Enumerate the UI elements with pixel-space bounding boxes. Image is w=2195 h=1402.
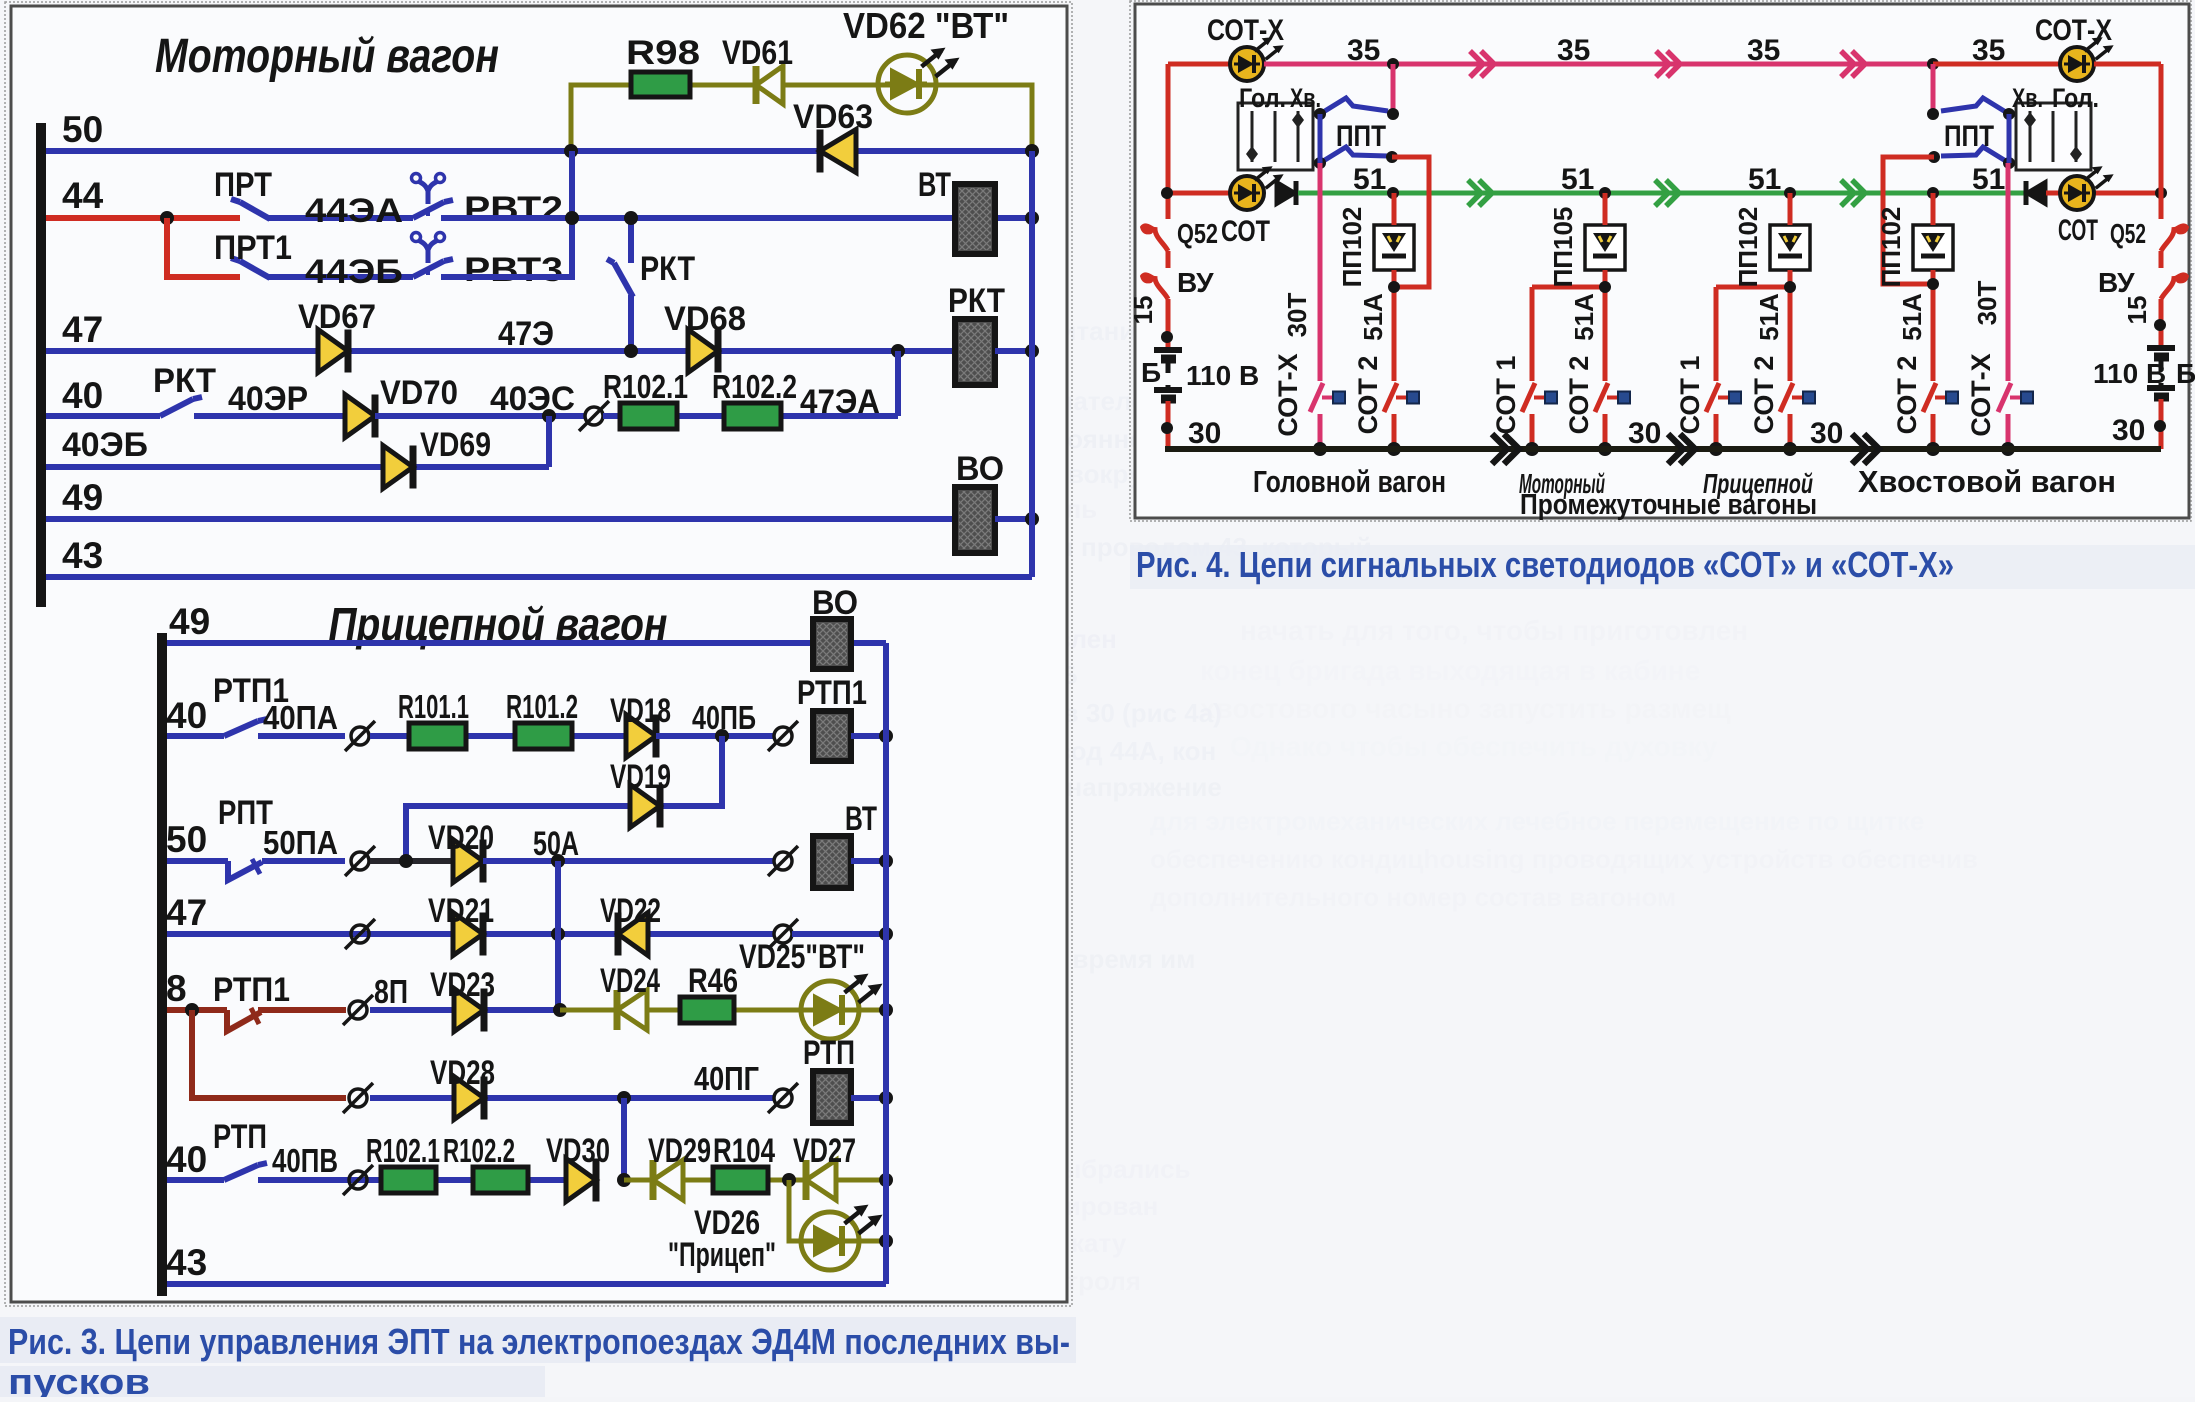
wire 51А trailer bbox=[1788, 193, 1793, 225]
wire 51 tail red segment bbox=[2046, 191, 2161, 196]
svg-text:РВТ3: РВТ3 bbox=[464, 251, 563, 289]
svg-text:РКТ: РКТ bbox=[640, 250, 695, 288]
wire 49 to right bus bbox=[995, 516, 1032, 522]
svg-text:30: 30 bbox=[1188, 417, 1221, 450]
contact РТП on wire 40ПВ bbox=[167, 1177, 224, 1183]
junction 51А tail bbox=[1927, 278, 1939, 290]
junction 51А motor bbox=[1599, 281, 1611, 293]
junction 51/right vertical bbox=[2155, 187, 2167, 199]
junction 40ПБ bbox=[715, 729, 729, 743]
thyristor ПП102 (tail) bbox=[1913, 225, 1953, 270]
olive LED branch wire bbox=[571, 85, 1032, 151]
wire 49 (blue) bbox=[46, 516, 955, 522]
wire 44ЭБ bbox=[268, 274, 413, 280]
junction 44/вертикаль bbox=[565, 211, 579, 225]
svg-text:Гол.: Гол. bbox=[2052, 83, 2099, 113]
svg-text:Рис. 4. Цепи сигнальных светод: Рис. 4. Цепи сигнальных светодиодов «СОТ… bbox=[1136, 544, 1954, 585]
svg-text:49: 49 bbox=[169, 601, 210, 642]
wire 47 to right bus bbox=[995, 348, 1032, 354]
contact РКТ on wire 40 bbox=[46, 413, 160, 419]
junction VD27/right bus bbox=[879, 1173, 893, 1187]
reverser box Гол/Хв (left) bbox=[1238, 103, 1313, 170]
red loop ППТ lower to 51А (tail) bbox=[1883, 157, 1934, 284]
wire 40ПБ bbox=[656, 733, 774, 739]
svg-text:ВО: ВО bbox=[812, 584, 858, 622]
diode VD70 (points right) bbox=[345, 395, 375, 438]
junction 47/vert bbox=[551, 927, 565, 941]
wire СОТ 1 (motor) bbox=[1530, 287, 1535, 381]
resistor R104 bbox=[713, 1167, 768, 1193]
svg-text:Моторный вагон: Моторный вагон bbox=[155, 30, 499, 83]
svg-text:R46: R46 bbox=[688, 962, 738, 1000]
junction 51А head bbox=[1388, 281, 1400, 293]
svg-text:R102.1: R102.1 bbox=[366, 1132, 440, 1169]
LED VD26 Прицеп bbox=[801, 1212, 859, 1270]
wire РТП to right bus bbox=[851, 1095, 886, 1101]
svg-text:ПП102: ПП102 bbox=[1337, 207, 1367, 288]
LED СОТ-Х (tail car) bbox=[2060, 47, 2094, 81]
wire 44 (red feed) bbox=[46, 215, 240, 221]
svg-text:пусков: пусков bbox=[8, 1361, 150, 1397]
wire 40ЭБ bbox=[46, 464, 549, 470]
svg-text:40: 40 bbox=[62, 375, 103, 416]
svg-text:30: 30 bbox=[1628, 417, 1661, 450]
wire 8П bbox=[370, 1007, 560, 1013]
LED СОТ (tail car) bbox=[2060, 176, 2094, 210]
wire ВТ to right bus bbox=[851, 858, 886, 864]
svg-text:49: 49 bbox=[62, 477, 103, 518]
junction 44 split bbox=[160, 211, 174, 225]
svg-text:VD63: VD63 bbox=[793, 98, 873, 136]
svg-text:VD20: VD20 bbox=[428, 819, 494, 857]
wire 47 (blue) bbox=[46, 348, 955, 354]
resistor R102.1 (trailer) bbox=[381, 1167, 436, 1193]
junction СОТ2 motor/30 bbox=[1598, 442, 1612, 456]
contact ППТ lower (left) bbox=[1320, 147, 1388, 163]
svg-text:40ПВ: 40ПВ bbox=[272, 1142, 338, 1179]
contact ПРТ (44ЭА row) bbox=[240, 202, 270, 219]
svg-text:40ПГ: 40ПГ bbox=[694, 1060, 759, 1097]
chevron 35 (3) bbox=[1841, 51, 1854, 77]
wire 35 tail-car red segment bbox=[1933, 62, 2061, 67]
diode VD68 (points right) bbox=[688, 330, 718, 373]
resistor R101.1 bbox=[409, 723, 466, 749]
chevron 30 (2) bbox=[1668, 434, 1683, 464]
svg-text:43: 43 bbox=[62, 535, 103, 576]
wire 51 green bbox=[1298, 191, 2026, 196]
svg-text:Q52: Q52 bbox=[1177, 218, 1218, 249]
wire 35 crimson bbox=[1264, 62, 1933, 67]
svg-text:51А: 51А bbox=[1358, 293, 1388, 341]
svg-text:40ЭР: 40ЭР bbox=[228, 380, 308, 418]
junction 8П/vert bbox=[553, 1003, 567, 1017]
junction 51/ПП102 tail bbox=[1927, 187, 1939, 199]
svg-text:44: 44 bbox=[62, 175, 104, 216]
svg-text:ПП102: ПП102 bbox=[1733, 207, 1763, 288]
bus bar (motor car minus bus) bbox=[36, 123, 46, 607]
svg-text:ППТ: ППТ bbox=[1944, 120, 1994, 153]
diode VD28 (points right) bbox=[454, 1077, 484, 1120]
svg-text:начать для того, чтобы пригото: начать для того, чтобы приготовлен bbox=[1240, 615, 1748, 646]
wire 40ПА bbox=[258, 733, 345, 739]
coil РКТ bbox=[955, 319, 995, 385]
svg-text:РТП: РТП bbox=[803, 1034, 855, 1072]
svg-text:44ЭА: 44ЭА bbox=[305, 192, 403, 230]
junction 30Т/30 (left) bbox=[1313, 442, 1327, 456]
chevron 51 (1) bbox=[1468, 180, 1481, 206]
svg-text:РВТ2: РВТ2 bbox=[464, 190, 563, 228]
battery to wire 30 bbox=[1166, 401, 1171, 449]
diode 51 (head, points right) bbox=[1276, 181, 1296, 205]
wire 43 (blue) bbox=[46, 574, 1032, 580]
svg-text:ПРТ1: ПРТ1 bbox=[214, 229, 292, 267]
svg-text:ВУ: ВУ bbox=[2098, 267, 2135, 298]
wire 44ЭА bbox=[268, 215, 413, 221]
svg-text:РКТ: РКТ bbox=[948, 282, 1005, 320]
svg-text:Промежуточные вагоны: Промежуточные вагоны bbox=[1520, 489, 1817, 521]
breaker ВУ (right) bbox=[2161, 276, 2174, 299]
svg-text:Однако чтобы обеспечить духовк: Однако чтобы обеспечить духовку bbox=[1230, 731, 1718, 762]
red loop ППТ lower to 51А (head) bbox=[1392, 157, 1429, 287]
contact РПТ on wire 50 (NC) bbox=[167, 858, 228, 864]
coil РТП1 bbox=[813, 711, 851, 761]
svg-text:ВТ: ВТ bbox=[845, 800, 877, 838]
svg-text:35: 35 bbox=[1347, 34, 1380, 67]
svg-text:51А: 51А bbox=[1754, 293, 1784, 341]
wire 47 to right bus bbox=[792, 931, 886, 937]
svg-text:R104: R104 bbox=[713, 1132, 775, 1170]
wire 43 trailer bbox=[167, 1281, 886, 1287]
svg-text:СОТ: СОТ bbox=[1221, 215, 1270, 248]
svg-text:VD70: VD70 bbox=[380, 374, 458, 412]
olive branch VD24-R46-VD25 bbox=[560, 1008, 886, 1013]
connector ø 50А bbox=[774, 852, 792, 870]
svg-text:для электромеханических лечебн: для электромеханических лечебное перемещ… bbox=[1150, 806, 1924, 836]
left head-car supply vertical (red) bbox=[1166, 64, 1171, 219]
reverser box Хв/Гол (right) bbox=[2016, 103, 2091, 170]
pushbutton СОТ 1 (motor) bbox=[1522, 383, 1535, 412]
junction VD25/right bus bbox=[879, 1003, 893, 1017]
junction 51/ПП105 bbox=[1599, 187, 1611, 199]
LED СОТ-Х (head car) bbox=[1230, 47, 1264, 81]
svg-text:35: 35 bbox=[1557, 34, 1590, 67]
svg-text:47: 47 bbox=[62, 309, 103, 350]
svg-text:РТП1: РТП1 bbox=[797, 674, 867, 712]
resistor R46 bbox=[680, 997, 734, 1023]
diode VD24 (olive, points left) bbox=[617, 990, 647, 1030]
connector ø 47А bbox=[774, 925, 792, 943]
pushbutton СОТ 2 (motor) bbox=[1595, 383, 1608, 412]
diode VD19 (points right) bbox=[630, 785, 660, 828]
svg-text:СОТ 2: СОТ 2 bbox=[1749, 356, 1779, 435]
svg-text:VD19: VD19 bbox=[610, 758, 671, 796]
svg-text:30: 30 bbox=[2112, 414, 2145, 447]
junction 30Т/30 (right) bbox=[2001, 442, 2015, 456]
junction 50/VD19 bbox=[399, 854, 413, 868]
diode VD22 (points left) bbox=[618, 913, 648, 956]
junction 15 (left) bbox=[1161, 331, 1173, 343]
bus bar (trailer car minus bus) bbox=[157, 633, 167, 1296]
battery Б right (110 V) bbox=[2147, 345, 2175, 351]
svg-text:R102.2: R102.2 bbox=[443, 1132, 515, 1169]
svg-text:51: 51 bbox=[1748, 163, 1781, 196]
svg-text:ППТ: ППТ bbox=[1336, 120, 1386, 153]
wire 35 (head car red segment) bbox=[1168, 62, 1231, 67]
wire 30Т (right, crimson vertical) bbox=[2006, 163, 2011, 381]
olive branch VD29-R104-VD27 bbox=[624, 1178, 886, 1183]
svg-text:35: 35 bbox=[1747, 34, 1780, 67]
figure 3 frame bbox=[11, 6, 1067, 1302]
svg-text:47: 47 bbox=[166, 892, 207, 933]
connector ø 47 bbox=[351, 925, 369, 943]
thyristor ПП105 (motor) bbox=[1585, 225, 1625, 270]
battery right to wire 30 bbox=[2159, 399, 2164, 449]
connector ø 50ПА bbox=[351, 852, 369, 870]
pushbutton СОТ-Х (right) bbox=[1998, 383, 2011, 412]
svg-text:30: 30 bbox=[1810, 417, 1843, 450]
breaker ВУ (left) bbox=[1155, 276, 1168, 299]
svg-text:R101.2: R101.2 bbox=[506, 688, 578, 725]
vertical 40ПГ to 40ПВ bbox=[621, 1098, 627, 1180]
junction 35/ППТ left bbox=[1387, 58, 1399, 70]
wire 51А motor bbox=[1603, 193, 1608, 225]
diode VD23 (points right) bbox=[454, 989, 484, 1032]
svg-text:VD23: VD23 bbox=[430, 966, 495, 1004]
wire 50ПА bbox=[262, 858, 345, 864]
wire 40ЭР bbox=[194, 413, 345, 419]
junction 40ПГ bbox=[617, 1091, 631, 1105]
wire to R101.1 bbox=[370, 733, 626, 739]
svg-text:ВТ: ВТ bbox=[918, 166, 951, 204]
junction 51/ПП102 trailer bbox=[1784, 187, 1796, 199]
chevron 30 (1) bbox=[1492, 434, 1507, 464]
svg-text:ПП102: ПП102 bbox=[1876, 207, 1906, 288]
svg-text:СОТ 1: СОТ 1 bbox=[1491, 356, 1521, 435]
svg-text:Б: Б bbox=[2176, 358, 2195, 389]
coil ВО bbox=[955, 487, 995, 553]
svg-text:R98: R98 bbox=[626, 34, 700, 72]
wire РВТ3 output to node bbox=[441, 151, 572, 277]
resistor R98 bbox=[631, 72, 690, 97]
diode VD29 (olive, points left) bbox=[653, 1160, 683, 1200]
wire 51 head car red segment bbox=[1168, 191, 1231, 196]
svg-text:Q52: Q52 bbox=[2110, 218, 2146, 249]
svg-text:VD62 "ВТ": VD62 "ВТ" bbox=[843, 5, 1009, 46]
svg-text:51А: 51А bbox=[1569, 293, 1599, 341]
junction 15 (right) bbox=[2154, 319, 2166, 331]
junction СОТ2 trailer/30 bbox=[1783, 442, 1797, 456]
svg-text:ПРТ: ПРТ bbox=[214, 166, 272, 204]
svg-text:ВО: ВО bbox=[956, 450, 1004, 488]
coil ВТ bbox=[955, 184, 995, 254]
wire 8 to ø bbox=[258, 1007, 346, 1013]
chevron 51 (3) bbox=[1841, 180, 1854, 206]
svg-text:Рис. 3. Цепи управления ЭПТ на: Рис. 3. Цепи управления ЭПТ на электропо… bbox=[8, 1321, 1070, 1362]
svg-text:VD28: VD28 bbox=[430, 1054, 495, 1092]
svg-text:ВУ: ВУ bbox=[1177, 267, 1214, 298]
svg-text:VD24: VD24 bbox=[600, 962, 660, 1000]
svg-text:110 В: 110 В bbox=[2093, 358, 2166, 389]
svg-text:47Э: 47Э bbox=[498, 315, 554, 353]
wire 35 drop to ППТ (left) bbox=[1391, 64, 1396, 114]
diode VD61 (olive, points left) bbox=[756, 66, 783, 104]
svg-text:СОТ-Х: СОТ-Х bbox=[2035, 14, 2112, 47]
junction 47/47ЭА bbox=[891, 344, 905, 358]
svg-text:РКТ: РКТ bbox=[153, 362, 216, 400]
resistor R102.1 bbox=[620, 403, 677, 429]
contact ПРТ1 (44ЭБ row) bbox=[240, 261, 270, 278]
wire 49 trailer bbox=[167, 640, 886, 646]
svg-text:РТП1: РТП1 bbox=[213, 971, 290, 1009]
breaker Q52 (right) bbox=[2161, 227, 2174, 251]
wire 51А tail bbox=[1931, 193, 1936, 225]
figure 4 frame bbox=[1135, 4, 2189, 518]
connector ø 47ЭА bbox=[560, 413, 585, 419]
pushbutton СОТ 2 (head) bbox=[1384, 383, 1397, 412]
junction СОТ2 head/30 bbox=[1387, 442, 1401, 456]
svg-text:47ЭА: 47ЭА bbox=[800, 383, 880, 421]
wire РТП1 to right bus bbox=[851, 733, 886, 739]
junction R104/VD26 bbox=[782, 1173, 796, 1187]
svg-text:40ЭС: 40ЭС bbox=[490, 380, 575, 418]
svg-text:VD21: VD21 bbox=[428, 892, 494, 930]
resistor R102.2 (trailer) bbox=[473, 1167, 528, 1193]
wire 35 drop to ППТ (right) bbox=[1931, 64, 1936, 114]
wire 47 trailer bbox=[167, 931, 774, 937]
svg-text:51: 51 bbox=[1353, 163, 1386, 196]
ППТ pivots link (left) bbox=[1318, 114, 1323, 163]
svg-text:44ЭБ: 44ЭБ bbox=[305, 253, 403, 291]
svg-text:СОТ-Х: СОТ-Х bbox=[1966, 353, 1996, 436]
svg-text:50: 50 bbox=[166, 819, 207, 860]
svg-text:VD22: VD22 bbox=[600, 892, 661, 930]
caption fig4 bbox=[1130, 545, 2195, 589]
contact ППТ lower (right) bbox=[1941, 147, 2009, 163]
ППТ pivots link (right) bbox=[2007, 114, 2012, 163]
svg-text:РТП: РТП bbox=[213, 1118, 267, 1156]
olive branch LED VD26 bbox=[789, 1180, 886, 1241]
svg-text:VD68: VD68 bbox=[664, 300, 746, 338]
diode VD18 (points right) bbox=[626, 715, 656, 758]
junction 47/РКТ contact bbox=[624, 344, 638, 358]
wire СОТ 1 (trailer) bbox=[1714, 287, 1719, 381]
red branch to PRT1 bbox=[167, 218, 240, 277]
svg-text:8: 8 bbox=[166, 968, 187, 1009]
wire 47ЭА up to 47 bbox=[895, 351, 901, 416]
junction wire50/olive left bbox=[564, 144, 578, 158]
pushbutton СОТ 2 (tail) bbox=[1923, 383, 1936, 412]
connector ø 8П bbox=[349, 1001, 367, 1019]
svg-text:40: 40 bbox=[166, 695, 207, 736]
svg-text:СОТ-Х: СОТ-Х bbox=[1273, 353, 1303, 436]
contact РТП1 on wire 40 bbox=[167, 733, 224, 739]
svg-text:43: 43 bbox=[166, 1242, 207, 1283]
LED VD62 bbox=[878, 55, 936, 113]
resistor R101.2 bbox=[515, 723, 572, 749]
contact РВТ2 with arc chute bbox=[413, 202, 444, 218]
breaker Q52 (left) bbox=[1155, 227, 1168, 251]
junction wire50/olive right bbox=[1025, 144, 1039, 158]
svg-text:VD69: VD69 bbox=[420, 426, 491, 464]
svg-text:110 В: 110 В bbox=[1186, 360, 1259, 391]
svg-text:30Т: 30Т bbox=[1282, 292, 1312, 337]
svg-text:Головной вагон: Головной вагон bbox=[1253, 464, 1446, 499]
svg-text:дополнительного номер состав в: дополнительного номер состав вагоном bbox=[1150, 882, 1676, 912]
junction 44/right bus bbox=[1025, 211, 1039, 225]
wire 30Т (left, crimson vertical) bbox=[1318, 163, 1323, 381]
pushbutton СОТ 1 (trailer) bbox=[1706, 383, 1719, 412]
chevron 35 (2) bbox=[1656, 51, 1669, 77]
svg-text:Хвостовой вагон: Хвостовой вагон bbox=[1858, 464, 2116, 499]
right bus vertical (motor car) bbox=[1029, 151, 1035, 577]
coil РТП bbox=[813, 1071, 851, 1123]
svg-text:хвостового часыно запустить ра: хвостового часыно запустить размещ bbox=[1200, 693, 1731, 724]
pushbutton СОТ 2 (trailer) bbox=[1780, 383, 1793, 412]
junction 44/РКТ bbox=[624, 211, 638, 225]
svg-text:СОТ 2: СОТ 2 bbox=[1353, 356, 1383, 435]
diode VD63 (on wire 50, points left) bbox=[820, 130, 856, 173]
svg-text:VD30: VD30 bbox=[546, 1132, 610, 1170]
diode VD67 (points right) bbox=[318, 330, 348, 373]
svg-text:СОТ 2: СОТ 2 bbox=[1892, 356, 1922, 435]
svg-text:R101.1: R101.1 bbox=[398, 688, 469, 725]
LED СОТ (head car) bbox=[1230, 176, 1264, 210]
pushbutton СОТ-Х (left) bbox=[1310, 383, 1323, 412]
wire ø to junction bbox=[370, 858, 453, 864]
connector ø 40ПА bbox=[351, 727, 369, 745]
caption band fig3 bbox=[0, 1317, 1076, 1363]
chevron 30 (3) bbox=[1852, 434, 1867, 464]
right bus vertical (trailer) bbox=[883, 643, 889, 1284]
right tail-car supply vertical (red) bbox=[2159, 64, 2164, 219]
contact РКТ (vertical, 44 to 47Э) bbox=[628, 218, 634, 263]
diode VD27 (olive, points left) bbox=[806, 1160, 836, 1200]
thyristor ПП102 (head) bbox=[1374, 225, 1414, 270]
svg-text:СОТ-Х: СОТ-Х bbox=[1207, 14, 1284, 47]
resistor R102.2 bbox=[724, 403, 781, 429]
junction 40ПВ/olive bbox=[617, 1173, 631, 1187]
svg-text:40: 40 bbox=[166, 1139, 207, 1180]
wire 40ЭС bbox=[375, 413, 560, 419]
wire 40ПГ blue bbox=[370, 1095, 774, 1101]
svg-text:VD61: VD61 bbox=[722, 34, 793, 72]
svg-text:конец бригада выходящая в каби: конец бригада выходящая в кабине bbox=[1200, 655, 1700, 686]
diode 51 (tail, points left) bbox=[2026, 181, 2046, 205]
svg-text:51: 51 bbox=[1972, 163, 2005, 196]
junction СОТ2 tail/30 bbox=[1926, 442, 1940, 456]
wire 8 (dark red) bbox=[167, 1007, 227, 1013]
svg-text:R102.2: R102.2 bbox=[712, 368, 797, 405]
svg-text:8П: 8П bbox=[374, 973, 408, 1010]
junction 35/ППТ right bbox=[1927, 58, 1939, 70]
contact ППТ upper (right) bbox=[1941, 98, 2009, 114]
wire РВТ2 output bbox=[441, 215, 1032, 221]
junction СОТ1 trailer/30 bbox=[1709, 442, 1723, 456]
junction СОТ1 motor/30 bbox=[1525, 442, 1539, 456]
contact РВТ3 with arc chute bbox=[413, 261, 444, 277]
svg-text:VD67: VD67 bbox=[298, 298, 376, 336]
wire 40ПГ (dark red part) bbox=[192, 1010, 346, 1098]
connector ø 40ПВ bbox=[349, 1171, 367, 1189]
junction 51/left vertical bbox=[1161, 187, 1173, 199]
coil ВО (trailer) bbox=[813, 619, 851, 669]
svg-text:VD18: VD18 bbox=[610, 692, 671, 730]
junction 51/ПП102 head bbox=[1387, 187, 1399, 199]
svg-text:VD29: VD29 bbox=[648, 1132, 711, 1170]
svg-text:51: 51 bbox=[1561, 163, 1594, 196]
junction VD26/right bus bbox=[879, 1234, 893, 1248]
svg-text:51А: 51А bbox=[1897, 293, 1927, 341]
